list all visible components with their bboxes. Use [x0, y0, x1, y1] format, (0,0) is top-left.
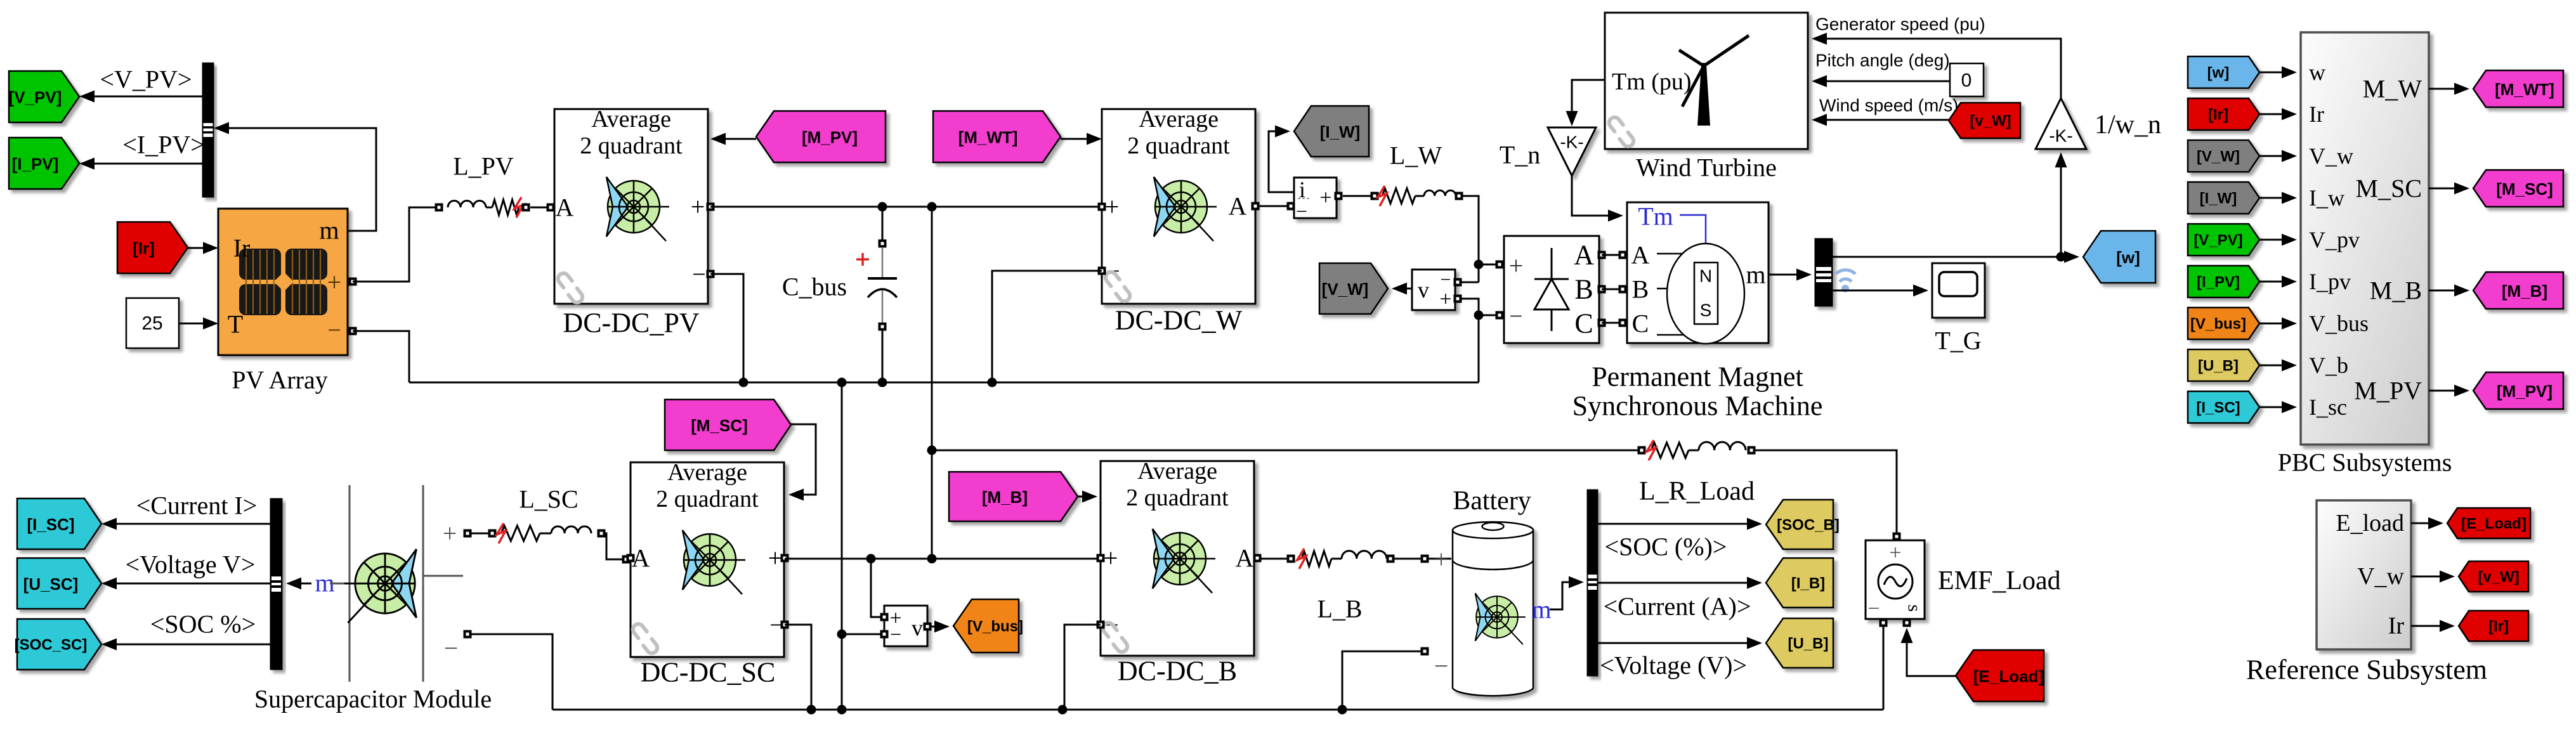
Wind Turbine block — [1605, 13, 1808, 149]
svg-text:−: − — [444, 634, 459, 663]
wire gain to PMSM Tm — [1572, 176, 1623, 222]
signal label <Current (A)> — [1604, 592, 1751, 621]
svg-text:V_w: V_w — [2309, 143, 2353, 169]
capacitor C_bus — [856, 209, 897, 382]
svg-text:I_w: I_w — [2309, 185, 2344, 211]
svg-text:[I_PV]: [I_PV] — [12, 155, 59, 174]
wire Ir to PV — [188, 242, 218, 254]
svg-text:[Ir]: [Ir] — [2488, 618, 2509, 635]
wire PV m feedback — [214, 122, 376, 231]
PBC output label M_SC — [2356, 174, 2422, 203]
svg-text:Ir: Ir — [2309, 101, 2324, 127]
wire v_W minus — [1458, 282, 1479, 283]
wire DC-DC_W minus down — [992, 271, 1102, 382]
svg-text:Synchronous Machine: Synchronous Machine — [1572, 391, 1823, 422]
svg-text:<I_PV>: <I_PV> — [122, 131, 205, 159]
wire DC-DC_W A out — [1259, 202, 1295, 211]
svg-text:<Current I>: <Current I> — [136, 491, 258, 520]
Ref output label E_load — [2336, 510, 2404, 537]
svg-text:[V_bus]: [V_bus] — [967, 618, 1023, 635]
wire [I_PV] to PBC — [2259, 276, 2297, 288]
wire v to V_bus tag — [931, 621, 950, 633]
wire [V_bus] to PBC — [2259, 318, 2297, 330]
goto tag [M_PV] (PBC output) — [2473, 372, 2563, 409]
svg-text:<SOC (%)>: <SOC (%)> — [1605, 533, 1727, 561]
from tag [v_W] wind — [1949, 103, 2020, 138]
svg-text:M_PV: M_PV — [2354, 377, 2422, 405]
wire PBC M_SC out — [2429, 183, 2469, 195]
Supercapacitor Module label — [254, 685, 492, 713]
from tag [V_PV] (PBC input) — [2188, 224, 2259, 256]
scope block T_G — [1932, 263, 1985, 318]
PV Array label — [232, 366, 327, 394]
from tag [E_Load] — [1956, 650, 2044, 701]
battery m label — [1531, 595, 1551, 624]
converter block DC-DC_W — [1098, 106, 1260, 304]
wire I_PV to tag — [79, 158, 202, 170]
wire Tm(pu) to gain — [1566, 80, 1605, 126]
wire bridge B to PMSM B — [1598, 285, 1627, 294]
svg-text:2 quadrant: 2 quadrant — [580, 133, 683, 159]
wire DC-DC_B minus down — [1064, 625, 1101, 710]
svg-text:[M_WT]: [M_WT] — [958, 128, 1018, 147]
svg-text:[I_B]: [I_B] — [1791, 575, 1825, 592]
wire v minus — [842, 634, 884, 635]
svg-text:+: + — [1889, 542, 1901, 565]
goto tag [U_B] — [1766, 618, 1833, 668]
svg-text:C_bus: C_bus — [782, 273, 847, 301]
wire to U_SC tag — [101, 578, 270, 590]
svg-text:+: + — [1319, 186, 1331, 210]
svg-text:[U_B]: [U_B] — [2198, 358, 2239, 375]
svg-text:Generator speed (pu): Generator speed (pu) — [1815, 15, 1985, 34]
svg-text:<SOC %>: <SOC %> — [150, 610, 256, 639]
wire PBC M_W out — [2429, 83, 2469, 95]
from tag [Ir] — [117, 222, 188, 273]
svg-text:V_pv: V_pv — [2309, 227, 2360, 252]
voltage measurement block v (V_bus) — [880, 606, 932, 646]
wire generator speed — [1812, 33, 2061, 99]
Battery block — [1434, 522, 1533, 696]
svg-text:Wind Turbine: Wind Turbine — [1636, 153, 1777, 182]
1/w_n label — [2095, 110, 2161, 140]
svg-text:Ir: Ir — [2388, 613, 2405, 639]
DC-DC_B label — [1118, 656, 1237, 687]
svg-text:I_sc: I_sc — [2309, 394, 2347, 420]
svg-text:v: v — [1418, 277, 1429, 302]
wire to I_B tag — [1598, 577, 1762, 589]
wire supercap m to bus — [286, 578, 311, 590]
svg-text:[I_SC]: [I_SC] — [27, 515, 74, 534]
gain block T_n — [1548, 127, 1596, 176]
T_n label — [1500, 141, 1540, 169]
svg-text:[V_PV]: [V_PV] — [2194, 232, 2242, 249]
svg-text:A: A — [556, 193, 574, 222]
wire battery m to bus — [1550, 576, 1584, 610]
universal bridge block — [1504, 236, 1599, 343]
goto tag [M_B] (PBC output) — [2473, 272, 2563, 309]
svg-text:Permanent Magnet: Permanent Magnet — [1592, 361, 1803, 393]
wire L_W down to bridge — [1463, 196, 1484, 282]
L_PV label — [453, 152, 514, 181]
wire [I_SC] to PBC — [2259, 401, 2297, 413]
svg-text:0: 0 — [1961, 70, 1972, 91]
wire PMSM m to bus — [1769, 269, 1812, 281]
wire PBC M_PV out — [2429, 385, 2469, 397]
wire to v plus — [871, 559, 884, 617]
svg-text:<Voltage V>: <Voltage V> — [126, 550, 256, 579]
svg-text:s: s — [1904, 604, 1925, 612]
svg-text:DC-DC_SC: DC-DC_SC — [641, 657, 776, 688]
goto tag [I_B] — [1766, 558, 1833, 608]
from tag [I_PV] (PBC input) — [2188, 266, 2259, 297]
wire dc bus minus — [409, 378, 1479, 387]
from tag [I_W] (PBC input) — [2188, 182, 2259, 214]
wire bridge plus — [1479, 261, 1504, 269]
svg-text:PBC Subsystems: PBC Subsystems — [2278, 448, 2452, 477]
signal label <SOC (%)> — [1605, 533, 1727, 561]
Battery label — [1453, 486, 1531, 516]
wire M_B to DC-DC_B — [1078, 491, 1097, 503]
svg-text:[Ir]: [Ir] — [133, 239, 155, 258]
PBC input label V_b — [2309, 353, 2348, 378]
DC-DC_W label — [1115, 305, 1243, 336]
svg-text:Average: Average — [591, 106, 671, 133]
svg-text:Average: Average — [667, 459, 747, 486]
svg-text:V_bus: V_bus — [2309, 311, 2369, 336]
wire [I_W] to PBC — [2259, 192, 2297, 204]
wire i to tag I_W — [1269, 126, 1294, 193]
goto tag [M_WT] (PBC output) — [2473, 70, 2563, 107]
svg-text:L_B: L_B — [1317, 595, 1362, 623]
svg-text:-K-: -K- — [2049, 126, 2072, 146]
PMSM label — [1572, 361, 1823, 422]
svg-text:V_w: V_w — [2357, 563, 2404, 590]
bus selector (battery) — [1587, 490, 1598, 676]
wire V_w out — [2411, 571, 2455, 583]
svg-text:PV Array: PV Array — [232, 366, 327, 394]
inductor-resistor branch L_SC — [471, 523, 631, 564]
svg-text:m: m — [1531, 595, 1551, 624]
svg-text:A: A — [1229, 192, 1247, 221]
svg-text:[U_SC]: [U_SC] — [23, 575, 79, 594]
svg-text:Supercapacitor Module: Supercapacitor Module — [254, 685, 492, 713]
wire M_SC to DC-DC_SC — [788, 424, 816, 501]
wire DC-DC_PV minus down — [710, 274, 743, 382]
svg-text:−: − — [1296, 200, 1307, 223]
PBC input label w — [2309, 60, 2325, 85]
svg-text:+: + — [1434, 545, 1449, 574]
wire E_load out — [2411, 517, 2443, 530]
PBC input label Ir — [2309, 101, 2324, 127]
svg-text:[V_W]: [V_W] — [1322, 280, 1369, 299]
battery minus port — [1421, 647, 1429, 656]
svg-text:[I_SC]: [I_SC] — [2196, 400, 2240, 417]
svg-text:T_G: T_G — [1935, 327, 1981, 355]
wire battery bus plus — [785, 554, 1101, 564]
goto tag [SOC_B] — [1766, 500, 1840, 549]
PBC Subsystems label — [2278, 448, 2452, 477]
PBC output label M_PV — [2354, 377, 2422, 405]
svg-text:+: + — [1104, 544, 1118, 573]
bus selector (PV measurements) — [202, 63, 214, 197]
PBC input label I_w — [2309, 185, 2344, 211]
svg-text:DC-DC_PV: DC-DC_PV — [563, 308, 699, 339]
inductor-resistor branch L_W — [1343, 186, 1463, 206]
inductor-resistor branch L_B — [1261, 549, 1451, 569]
voltage measurement block v (V_W) — [1412, 270, 1462, 311]
signal label <V_PV> — [100, 65, 192, 94]
wire Ir out — [2411, 620, 2455, 632]
Reference Subsystem label — [2246, 654, 2487, 686]
wifi logging badge — [1836, 270, 1855, 292]
PV Array block — [218, 209, 357, 355]
EMF_Load label — [1938, 566, 2061, 595]
svg-text:Reference Subsystem: Reference Subsystem — [2246, 654, 2487, 686]
from tag [V_W] (PBC input) — [2188, 140, 2259, 172]
wire PV+ to L_PV — [353, 207, 437, 282]
L_R_Load label — [1639, 477, 1755, 506]
wire load line — [932, 450, 1642, 452]
wire [V_W] to PBC — [2259, 150, 2297, 162]
PBC input label I_sc — [2309, 394, 2347, 420]
svg-text:B: B — [1632, 275, 1649, 304]
svg-text:−: − — [890, 623, 901, 646]
EMF_Load source block — [1866, 533, 1925, 627]
wire battery minus — [1342, 651, 1421, 710]
svg-text:+: + — [443, 519, 457, 548]
inductor-resistor branch L_PV — [435, 197, 555, 218]
signal label <SOC %> — [150, 610, 256, 639]
svg-text:[U_B]: [U_B] — [1788, 635, 1829, 653]
C_bus label — [782, 273, 847, 301]
svg-text:[M_SC]: [M_SC] — [2496, 179, 2553, 198]
svg-text:Ir: Ir — [233, 234, 251, 263]
goto tag [V_bus] — [953, 599, 1023, 653]
goto tag [v_W] (ref) — [2459, 561, 2528, 592]
svg-text:+: + — [768, 544, 783, 573]
wire to SOC_B tag — [1598, 518, 1762, 530]
wire v to tag V_W — [1392, 283, 1412, 295]
goto tag [I_W] — [1294, 106, 1369, 157]
gain block 1/w_n — [2036, 98, 2086, 149]
Ref output label V_w — [2357, 563, 2404, 590]
from tag [w] (PBC input) — [2188, 56, 2259, 88]
svg-text:[V_PV]: [V_PV] — [9, 88, 62, 107]
wire [U_B] to PBC — [2259, 360, 2297, 372]
svg-text:Wind speed (m/s): Wind speed (m/s) — [1819, 96, 1958, 115]
svg-text:Tm: Tm — [1638, 202, 1673, 231]
svg-text:m: m — [319, 216, 339, 245]
goto tag [V_PV] — [9, 71, 79, 122]
converter block DC-DC_B — [1097, 458, 1262, 656]
svg-text:DC-DC_W: DC-DC_W — [1115, 305, 1243, 336]
DC-DC_SC label — [641, 657, 776, 688]
svg-text:E_load: E_load — [2336, 510, 2404, 537]
from tag [Ir] (PBC input) — [2188, 98, 2259, 130]
svg-text:<V_PV>: <V_PV> — [100, 65, 192, 94]
PBC Subsystems block — [2301, 32, 2429, 445]
svg-text:−: − — [692, 261, 705, 288]
PMSM block — [1627, 202, 1769, 344]
svg-text:C: C — [1632, 309, 1649, 338]
svg-text:+: + — [1439, 288, 1451, 311]
L_SC label — [519, 485, 578, 514]
wire 0 to pitch angle — [1812, 75, 1950, 88]
svg-text:[SOC_B]: [SOC_B] — [1777, 517, 1840, 534]
T_G label — [1935, 327, 1981, 355]
svg-text:2 quadrant: 2 quadrant — [656, 486, 759, 512]
Supercapacitor Module block — [330, 485, 472, 682]
Wind Turbine label — [1636, 153, 1777, 182]
wire 25 to T — [179, 318, 218, 330]
constant block 0 — [1950, 63, 1984, 96]
goto tag [SOC_SC] — [15, 619, 101, 670]
wire EMF minus down — [1883, 627, 1885, 710]
svg-text:[I_W]: [I_W] — [1320, 122, 1361, 141]
svg-text:+: + — [1105, 193, 1120, 221]
from tag [M_PV] — [756, 111, 886, 162]
svg-text:[I_W]: [I_W] — [2200, 190, 2237, 207]
from tag [I_SC] (PBC input) — [2188, 391, 2259, 423]
input label Generator speed (pu) — [1815, 15, 1985, 34]
svg-text:m: m — [1746, 261, 1765, 289]
PBC input label V_w — [2309, 143, 2353, 169]
svg-text:L_SC: L_SC — [519, 485, 578, 514]
svg-text:M_W: M_W — [2363, 75, 2422, 103]
wire bridge C to PMSM C — [1598, 319, 1627, 327]
wire bridge minus — [1479, 311, 1504, 320]
svg-text:M_SC: M_SC — [2356, 174, 2422, 203]
wire v minus vertical — [837, 382, 847, 715]
from tag [U_B] (PBC input) — [2188, 349, 2259, 381]
svg-text:[I_PV]: [I_PV] — [2197, 274, 2240, 291]
goto tag [Ir] (ref) — [2459, 611, 2528, 641]
svg-text:-K-: -K- — [1560, 133, 1583, 152]
bus selector (supercap) — [270, 498, 282, 670]
wire M_WT to DC-DC_W — [1061, 133, 1102, 145]
svg-text:[M_PV]: [M_PV] — [2497, 382, 2553, 401]
goto tag [E_Load] (ref) — [2447, 508, 2530, 538]
signal label <Voltage (V)> — [1600, 651, 1747, 680]
svg-text:−: − — [327, 317, 341, 344]
wire [V_PV] to PBC — [2259, 234, 2297, 246]
svg-text:[w]: [w] — [2207, 65, 2230, 82]
svg-text:T: T — [228, 310, 243, 339]
goto tag [U_SC] — [17, 558, 101, 609]
wire dc link vertical — [927, 207, 937, 559]
Reference Subsystem block — [2317, 500, 2411, 649]
svg-text:2 quadrant: 2 quadrant — [1127, 133, 1230, 159]
inductor-resistor branch L_R_Load — [1638, 440, 1897, 533]
wire v_W plus down — [1458, 299, 1484, 382]
goto tag [I_PV] — [9, 138, 79, 189]
converter block DC-DC_SC — [627, 459, 789, 657]
svg-text:B: B — [1574, 274, 1593, 305]
signal label <I_PV> — [122, 131, 205, 159]
svg-text:[E_Load]: [E_Load] — [2461, 516, 2527, 533]
wire to U_B tag — [1598, 637, 1762, 649]
svg-text:+: + — [327, 268, 342, 297]
Ref output label Ir — [2388, 613, 2405, 639]
svg-text:A: A — [1631, 241, 1650, 270]
wire supercap minus — [471, 634, 552, 710]
svg-text:w: w — [2309, 60, 2325, 85]
wire bus to w junction — [1833, 251, 2079, 263]
wire V_PV to tag — [79, 91, 202, 103]
input label Wind speed (m/s) — [1819, 96, 1958, 115]
wire w to gain — [2055, 152, 2067, 257]
svg-text:−: − — [1509, 303, 1522, 330]
svg-text:Average: Average — [1137, 458, 1217, 485]
from tag [M_SC] — [665, 400, 791, 450]
PBC output label M_B — [2370, 276, 2422, 305]
wire to I_SC tag — [101, 518, 270, 530]
svg-text:2 quadrant: 2 quadrant — [1126, 485, 1229, 511]
svg-text:L_R_Load: L_R_Load — [1639, 477, 1755, 506]
svg-text:[w]: [w] — [2116, 248, 2140, 267]
svg-text:EMF_Load: EMF_Load — [1938, 566, 2061, 595]
svg-text:1/w_n: 1/w_n — [2095, 110, 2161, 140]
wire to SOC_SC tag — [101, 639, 270, 651]
from tag [V_bus] (PBC input) — [2188, 308, 2259, 339]
svg-text:Tm (pu): Tm (pu) — [1612, 68, 1692, 95]
wire dc bus plus — [710, 202, 1102, 212]
PBC input label V_bus — [2309, 311, 2369, 336]
svg-text:[Ir]: [Ir] — [2208, 107, 2228, 124]
PBC input label I_pv — [2309, 269, 2351, 294]
current measurement block i — [1294, 177, 1343, 223]
svg-text:C: C — [1574, 308, 1593, 339]
svg-text:[V_bus]: [V_bus] — [2190, 316, 2246, 333]
svg-text:−: − — [1867, 597, 1880, 621]
from tag [M_WT] — [933, 111, 1061, 162]
svg-text:25: 25 — [141, 313, 162, 334]
svg-text:[M_WT]: [M_WT] — [2495, 80, 2554, 99]
from tag [M_B] — [949, 472, 1078, 521]
svg-text:[M_B]: [M_B] — [2502, 282, 2547, 301]
L_W label — [1390, 141, 1442, 170]
svg-text:[V_W]: [V_W] — [2197, 148, 2240, 166]
svg-text:<Current (A)>: <Current (A)> — [1604, 592, 1751, 621]
wire bridge A to PMSM A — [1598, 251, 1627, 259]
svg-text:A: A — [1574, 240, 1594, 271]
svg-text:+: + — [1509, 252, 1524, 280]
svg-text:[M_SC]: [M_SC] — [691, 416, 748, 435]
svg-text:[v_W]: [v_W] — [2478, 569, 2519, 586]
svg-text:N: N — [1699, 266, 1712, 286]
wire [w] to PBC — [2259, 67, 2297, 79]
svg-text:+: + — [691, 193, 705, 221]
svg-text:−: − — [1434, 652, 1449, 680]
svg-text:S: S — [1700, 301, 1712, 320]
wire bottom bus minus — [552, 705, 1883, 715]
svg-text:[M_PV]: [M_PV] — [802, 128, 858, 147]
svg-text:M_B: M_B — [2370, 276, 2422, 305]
L_B label — [1317, 595, 1362, 623]
svg-text:Battery: Battery — [1453, 486, 1531, 516]
wire E_Load to s — [1901, 628, 1956, 676]
wire M_PV to DC-DC_PV — [710, 133, 756, 145]
svg-text:DC-DC_B: DC-DC_B — [1118, 656, 1237, 687]
svg-text:v: v — [912, 615, 923, 641]
goto tag [M_SC] (PBC output) — [2473, 170, 2563, 207]
PBC input label V_pv — [2309, 227, 2360, 252]
goto tag [I_SC] — [17, 498, 101, 549]
svg-text:Pitch angle (deg): Pitch angle (deg) — [1815, 51, 1950, 70]
svg-text:A: A — [1236, 544, 1254, 573]
wire DC-DC_SC minus down — [785, 625, 811, 710]
